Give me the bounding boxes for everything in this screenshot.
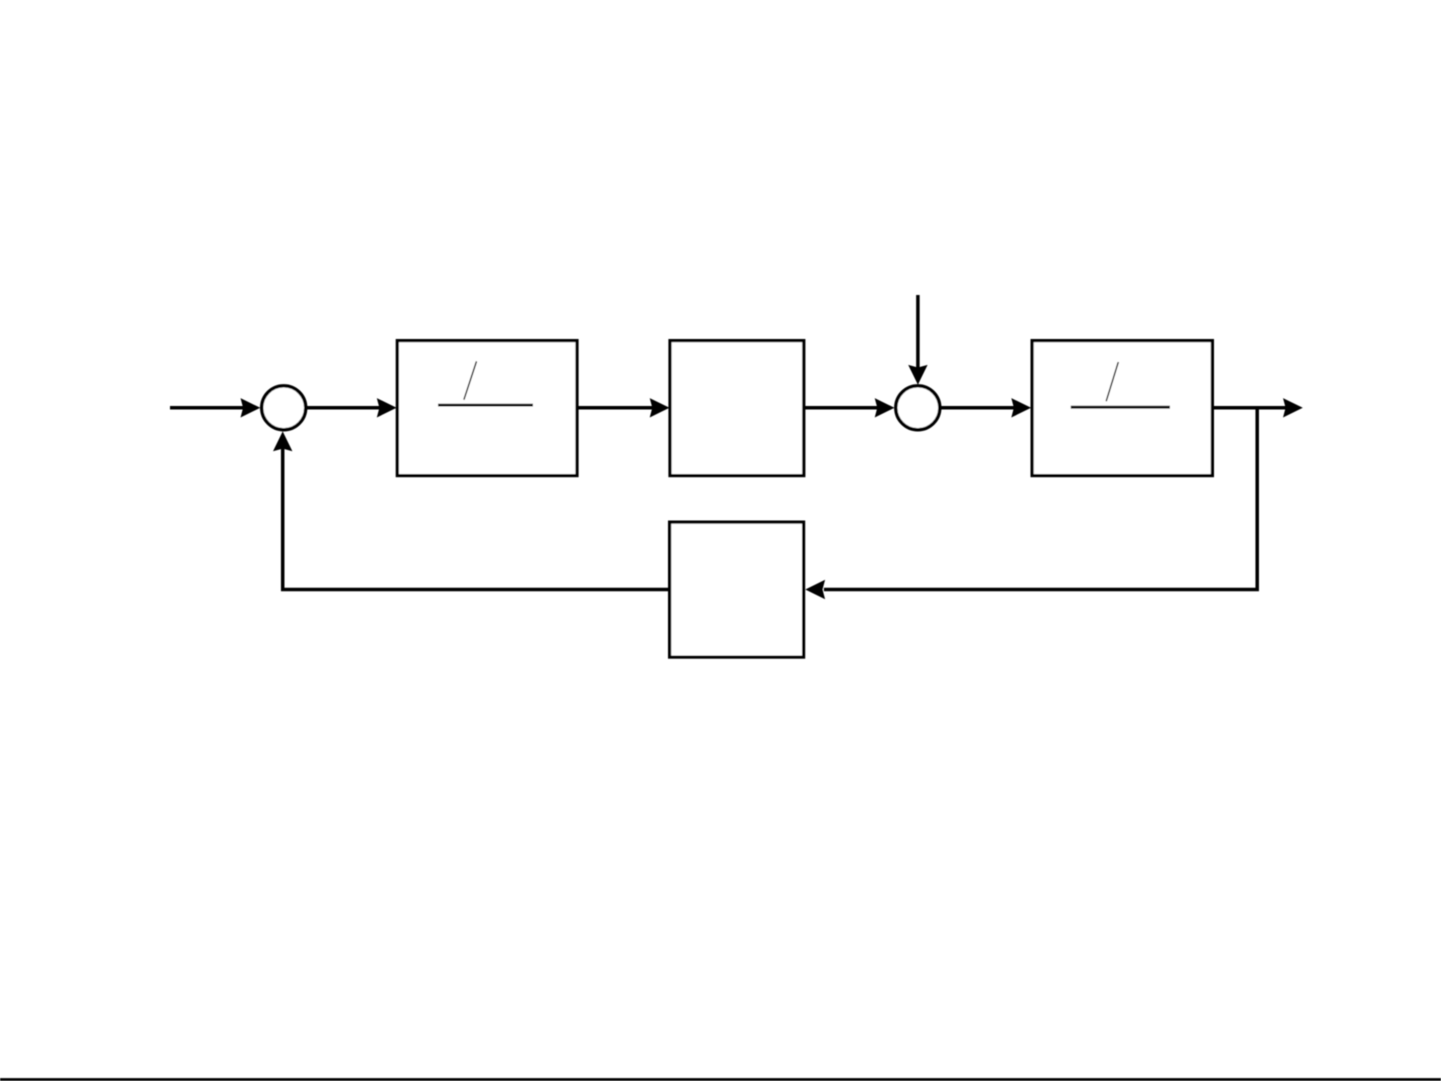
summing junction 2 (circle) bbox=[896, 386, 940, 430]
wire output arrow from block G3 bbox=[1212, 398, 1302, 417]
fraction slash in block G3 bbox=[1106, 362, 1118, 401]
wire input arrow into summing junction 1 bbox=[170, 398, 260, 417]
fraction bar in block G1 bbox=[438, 404, 533, 407]
fraction bar in block G3 bbox=[1071, 406, 1170, 409]
wire summing junction 1 to block G1 bbox=[284, 398, 397, 417]
block G1 (controller, empty transfer-function fraction) bbox=[397, 341, 577, 476]
summing junction 1 (circle) bbox=[262, 386, 306, 430]
wire summing junction 2 to block G3 bbox=[918, 398, 1031, 417]
wire block G1 to block G2 bbox=[577, 398, 670, 417]
bottom page rule bbox=[0, 1078, 1441, 1081]
fraction slash in block G1 bbox=[464, 361, 477, 399]
block H (feedback, empty block) bbox=[670, 522, 804, 657]
wire block G2 to summing junction 2 bbox=[804, 398, 895, 417]
wire feedback branch from output down and left into block H bbox=[805, 408, 1257, 599]
block G3 (plant, empty transfer-function fraction) bbox=[1032, 341, 1212, 476]
block G2 (empty block) bbox=[670, 341, 804, 476]
wire block H output left and up into summing junction 1 bbox=[273, 431, 670, 589]
wire disturbance input (vertical) into summing junction 2 bbox=[908, 295, 927, 385]
